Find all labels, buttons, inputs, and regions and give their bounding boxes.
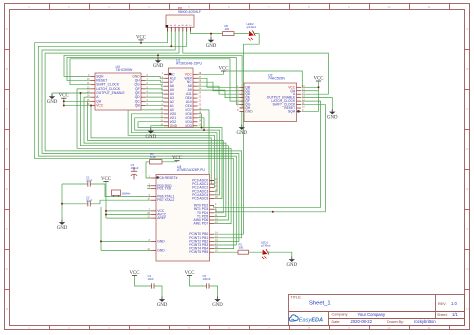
vcc flag crystal <box>101 177 111 182</box>
svg-text:REV:: REV: <box>438 302 446 306</box>
svg-text:E: E <box>6 187 8 191</box>
EasyEDA logo <box>289 315 323 324</box>
svg-text:GND: GND <box>153 64 164 69</box>
wire U4 RESET to R3 <box>146 162 172 178</box>
ground C5 <box>212 297 223 309</box>
svg-text:74HC595N: 74HC595N <box>268 77 285 81</box>
junction VCC rail 2 <box>105 214 107 216</box>
vcc flag right of U3 <box>313 76 323 81</box>
wire U1 I/O2 wrap to U4 ADC5 <box>138 122 222 199</box>
svg-text:74HC595N: 74HC595N <box>116 68 133 72</box>
wire nest L4 from P6 to U4 PB1 <box>45 27 241 238</box>
wire C4 net <box>135 276 163 297</box>
junction GND mid <box>157 54 159 56</box>
svg-text:11: 11 <box>427 326 430 330</box>
svg-text:16MHz: 16MHz <box>122 192 131 196</box>
svg-text:100: 100 <box>225 27 230 31</box>
wire U4 TXD stub <box>147 188 151 190</box>
wire U0 LATCH_CLOCK to U4 AIN1 <box>77 89 231 224</box>
vcc flag above U1 <box>218 66 228 71</box>
capacitor C4 10nF <box>148 274 155 289</box>
wire U3 GND leg <box>241 111 243 124</box>
wire U0 QA to U4 T0 <box>88 101 224 213</box>
capacitor C1 20pF <box>86 176 93 187</box>
wire C5 net <box>190 276 218 297</box>
svg-text:VCC: VCC <box>136 35 146 40</box>
wire U1 GND leg <box>151 126 164 129</box>
wire U0 VCC row to U4 ADC1 <box>91 105 215 184</box>
vcc flag top center <box>136 35 146 40</box>
wire U1 pin to U3 QB chain 4 <box>198 90 240 98</box>
wire nest L2 from P6 to U4 PB3 <box>38 27 236 245</box>
svg-text:VCC: VCC <box>59 94 69 99</box>
junction U0 qa row <box>63 100 65 102</box>
ground LED1 <box>286 257 297 269</box>
svg-text:2020-08-22: 2020-08-22 <box>351 319 373 324</box>
svg-text:PD1 TXD: PD1 TXD <box>157 187 171 191</box>
wire U0 output 7 to U1 address pin <box>146 100 165 103</box>
svg-text:1/1: 1/1 <box>452 312 458 317</box>
wire U1 VCC to supply flag <box>198 71 224 74</box>
junction U0 vcc left <box>63 104 65 106</box>
svg-text:GND: GND <box>47 100 58 105</box>
svg-text:GND: GND <box>236 131 247 136</box>
op-amp U0 74HC595N shift register <box>87 65 149 110</box>
junction U3 VCC <box>318 86 320 88</box>
vcc flag R3 <box>172 156 182 161</box>
svg-text:GND: GND <box>145 135 156 140</box>
vcc flag C4 <box>129 271 139 276</box>
svg-text:10: 10 <box>387 5 391 9</box>
pin 1 marker U4 <box>157 176 159 178</box>
svg-text:300: 300 <box>239 246 244 250</box>
ground under U3 left <box>236 125 247 137</box>
svg-text:A: A <box>466 27 468 31</box>
ground C4 <box>157 297 168 309</box>
svg-text:SQH: SQH <box>288 109 296 113</box>
wire GND stem mid <box>157 55 159 57</box>
wire U1 A0 wrap to U4 ADC2 <box>128 110 214 188</box>
svg-text:Sheet:: Sheet: <box>437 313 448 317</box>
svg-text:100uF: 100uF <box>131 166 139 170</box>
wire stub U1 I/O5 down to bus <box>198 118 205 130</box>
svg-text:I/O3: I/O3 <box>185 124 191 128</box>
svg-text:AREF: AREF <box>157 216 166 220</box>
svg-text:8.2K: 8.2K <box>150 155 156 159</box>
svg-text:PC6 RESET#: PC6 RESET# <box>157 176 177 180</box>
svg-text:11: 11 <box>427 5 430 9</box>
svg-text:Date:: Date: <box>332 320 341 324</box>
wire U0 A to U4 T1 <box>84 97 226 216</box>
svg-text:GND: GND <box>245 109 253 113</box>
svg-text:GND: GND <box>170 124 178 128</box>
junction U0 gnd row <box>80 92 82 94</box>
crystal X1 16MHz <box>112 190 131 197</box>
svg-text:GND: GND <box>157 248 165 252</box>
LED D1 LED1 <box>261 241 271 259</box>
junction C2 gnd <box>61 203 63 205</box>
wire U0 output 6 to U1 address pin <box>146 96 165 99</box>
wire U0 output 1 to U1 address pin <box>146 76 165 78</box>
svg-text:E: E <box>466 187 468 191</box>
wire U0 output 2 to U1 address pin <box>146 81 165 83</box>
vcc flag left of U0 <box>59 94 69 99</box>
capacitor C3 100uF electrolytic <box>131 163 139 180</box>
svg-text:Sheet_1: Sheet_1 <box>309 301 331 307</box>
wire U1 I/O7 to U4 ADC0 <box>198 110 215 181</box>
svg-text:PC5 ADC5: PC5 ADC5 <box>192 197 208 201</box>
wire VCC net U1 to U3 <box>224 71 303 87</box>
svg-text:EasyEDA: EasyEDA <box>299 318 323 324</box>
wire U1 I/O0 wrap to U4 ADC3 <box>131 114 217 192</box>
svg-text:GND: GND <box>57 226 68 231</box>
capacitor C2 20pF <box>86 196 93 207</box>
wire U1 pin to U3 QB chain 3 <box>198 86 240 94</box>
svg-text:H: H <box>466 307 468 311</box>
wire C1 to crystal XTAL1 <box>62 184 151 197</box>
svg-text:TITLE:: TITLE: <box>291 296 302 300</box>
svg-text:B: B <box>466 67 468 71</box>
svg-text:VCC: VCC <box>172 156 182 161</box>
wire VCC branch left of U0 <box>64 98 91 105</box>
svg-text:GND: GND <box>286 263 297 268</box>
ground right of U3 <box>327 109 338 121</box>
wire nest L3 from P6 to U4 PB2 <box>42 27 239 241</box>
capacitor C5 100nF <box>203 274 211 289</box>
wire net from P6 pin to R0 and LED2 <box>191 27 260 234</box>
junction gnd rail <box>100 240 102 242</box>
svg-text:H: H <box>6 307 8 311</box>
ground left of U0 <box>47 94 58 106</box>
svg-text:10: 10 <box>387 326 391 330</box>
wire U4 RXD stub <box>147 185 151 187</box>
wire VCC stem top <box>140 40 142 43</box>
svg-text:100nF: 100nF <box>203 277 211 281</box>
wire U1 pin to U3 QB chain 2 <box>198 82 240 91</box>
svg-text:VCC: VCC <box>313 76 323 81</box>
svg-text:OUTPUT_ENABLE: OUTPUT_ENABLE <box>96 91 125 95</box>
svg-text:AIN1 PD7: AIN1 PD7 <box>194 222 209 226</box>
wire U0 OUTPUT_ENABLE to U4 AIN0 <box>81 93 229 220</box>
svg-text:Drawn By:: Drawn By: <box>387 320 404 324</box>
svg-text:rockybritton: rockybritton <box>414 319 436 324</box>
svg-text:VCC: VCC <box>101 177 111 182</box>
svg-text:98000-40SHLF: 98000-40SHLF <box>178 10 201 14</box>
shift register U3 74HC595N <box>237 74 305 122</box>
wire nest L1 from P6 to U4 PB4 <box>35 27 234 248</box>
ground mid between U0 and U1 <box>153 58 164 70</box>
ground crystal cluster <box>57 220 68 232</box>
svg-text:VCC: VCC <box>129 271 139 276</box>
wire U3 QA branch <box>302 90 319 92</box>
wire U1 pin to U3 QB chain 1 <box>198 78 240 87</box>
svg-text:F: F <box>6 227 8 231</box>
wire U3 OUTPUT_ENABLE to GND <box>302 98 333 109</box>
svg-text:PCINT5 PB5: PCINT5 PB5 <box>189 250 208 254</box>
wire U0 output 3 to U1 address pin <box>146 85 165 86</box>
svg-text:GND: GND <box>157 303 168 308</box>
resistor R3 <box>150 152 163 164</box>
svg-text:10nF: 10nF <box>148 277 155 281</box>
junction VCC top <box>140 42 142 44</box>
wire GND branch left of U0 <box>52 92 91 95</box>
wire control line B from U0 RESET to U3 <box>67 58 240 105</box>
LED D2 LED2 <box>247 22 257 40</box>
wire U0 output 8 to U1 address pin <box>146 104 165 107</box>
wire U0 output 4 to U1 address pin <box>146 89 165 90</box>
svg-text:Your Company: Your Company <box>358 312 386 317</box>
svg-text:B: B <box>6 67 8 71</box>
resistor R1 <box>238 243 249 255</box>
junction INT pair <box>272 211 274 213</box>
wire C1 C2 ground leg <box>61 184 63 220</box>
wire long loop from P6 across top to U3 pin A <box>183 27 329 94</box>
wire VCC stem R3 <box>172 161 177 162</box>
connector P6 98000-40SHLF <box>166 6 201 31</box>
wire VCC to U4 power pins <box>106 182 151 219</box>
wire control line A from U0 SQH to U3 <box>64 55 242 108</box>
svg-text:VCC: VCC <box>96 103 104 107</box>
svg-text:VCC: VCC <box>184 271 194 276</box>
title block frame <box>289 295 465 326</box>
wire U3 LATCH_CLOCK to U4 INT0 <box>214 101 321 207</box>
junction U0 vcc row <box>90 104 92 106</box>
wire U0 output 5 to U1 address pin <box>146 93 165 94</box>
wire stub U1 I/O6 down to bus <box>198 114 202 128</box>
title block text <box>291 296 448 324</box>
pin 1 marker U1 <box>169 73 171 75</box>
resistor R0 <box>223 24 235 36</box>
memory U1 AT28C64B-15PU <box>160 59 202 128</box>
microcontroller U4 ATMEGA328P-PU <box>147 165 218 261</box>
ground top near R0 <box>206 37 217 49</box>
svg-text:Company:: Company: <box>332 313 349 317</box>
wire U1 I/O1 wrap to U4 ADC4 <box>135 118 220 195</box>
ground under U1 <box>145 128 156 140</box>
svg-text:φ3 Red: φ3 Red <box>247 25 257 29</box>
svg-text:GND: GND <box>206 44 217 49</box>
wire control line C from U0 SHIFT_CLOCK to U3 <box>70 59 240 101</box>
svg-text:φ3 Red: φ3 Red <box>261 244 271 248</box>
svg-text:20pF: 20pF <box>86 199 93 203</box>
junction at GND top wire <box>210 33 212 35</box>
wire U4 PB5 to R1 LED1 <box>214 252 292 256</box>
svg-text:F: F <box>467 227 469 231</box>
vcc flag C5 <box>184 271 194 276</box>
svg-text:1.0: 1.0 <box>451 301 457 306</box>
wire GND stem top <box>210 34 212 38</box>
svg-text:QB: QB <box>135 103 141 107</box>
wire U3 VCC net vertical <box>302 81 319 111</box>
wire C2 to XTAL2 <box>62 200 151 204</box>
svg-text:A: A <box>6 27 8 31</box>
wire U4 ground rail <box>101 207 151 250</box>
svg-text:PB7 XTAL2: PB7 XTAL2 <box>157 198 174 202</box>
junction bus a <box>201 127 203 129</box>
pin marker U3 <box>297 110 299 112</box>
svg-text:AT28C64B-15PU: AT28C64B-15PU <box>176 62 202 66</box>
svg-text:GND: GND <box>157 239 165 243</box>
junction bus b <box>203 129 205 131</box>
svg-text:GND: GND <box>327 116 338 121</box>
junction VCC rail 1 <box>105 210 107 212</box>
svg-text:ATMEGA328P-PU: ATMEGA328P-PU <box>177 168 205 172</box>
junction P6 stub <box>170 45 172 47</box>
svg-text:20pF: 20pF <box>86 179 93 183</box>
svg-text:GND: GND <box>212 303 223 308</box>
svg-text:VCC: VCC <box>218 66 228 71</box>
wire U3 SHIFT_CLOCK to U4 INT1 <box>214 105 325 212</box>
